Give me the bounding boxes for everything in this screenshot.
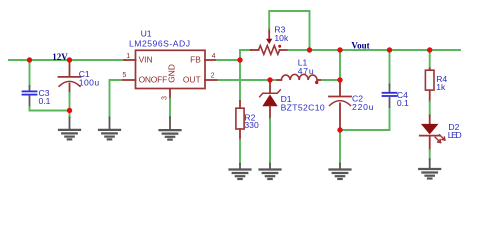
wire FB down to R2 <box>239 60 241 101</box>
svg-text:3: 3 <box>160 96 169 100</box>
svg-text:47u: 47u <box>298 66 314 76</box>
wire R3 wiper loop <box>269 11 309 50</box>
ground under D2 <box>419 159 440 178</box>
diode D1 zener BZT52C10 <box>260 82 325 119</box>
svg-text:0.1: 0.1 <box>397 98 409 108</box>
wire C2 node to ground <box>339 130 341 164</box>
svg-text:12V: 12V <box>52 52 68 62</box>
junction FB node <box>237 57 242 62</box>
wire C3 branch down <box>29 60 31 86</box>
svg-text:10k: 10k <box>274 33 289 43</box>
ground under C2 <box>330 164 351 180</box>
svg-text:5: 5 <box>122 70 126 79</box>
inductor L1 <box>277 57 322 84</box>
ground under U1 pin3 <box>160 117 181 139</box>
junction input/C1 <box>67 57 72 62</box>
svg-text:100u: 100u <box>79 77 100 87</box>
capacitor C2 <box>329 82 374 130</box>
wire C1 bottom to ground junction <box>69 93 71 118</box>
wire FB up to R3 <box>240 50 251 60</box>
svg-text:1: 1 <box>126 51 130 60</box>
svg-text:0.1: 0.1 <box>39 96 51 106</box>
wire rail down to C4 <box>389 50 391 85</box>
wire R2 to ground <box>239 140 241 164</box>
pin 4 lead FB <box>205 59 217 61</box>
potentiometer R3 <box>251 24 289 54</box>
wire input 12V horizontal <box>9 59 124 61</box>
capacitor C1 <box>59 61 100 93</box>
svg-text:GND: GND <box>166 64 176 83</box>
junction rail/R4 <box>427 47 432 52</box>
wire C2 node up to rail <box>339 50 341 80</box>
wire ground node C2/C4 <box>340 107 390 130</box>
svg-text:LM2596S-ADJ: LM2596S-ADJ <box>129 38 190 48</box>
capacitor C3 <box>23 86 51 107</box>
ground under D1 <box>260 164 281 179</box>
svg-text:VIN: VIN <box>139 54 153 64</box>
junction C1/C3 ground node <box>67 108 72 113</box>
wire L1 to C2 node <box>322 79 340 81</box>
capacitor C4 <box>383 85 410 108</box>
svg-text:Vout: Vout <box>351 41 369 51</box>
wire main output rail <box>289 49 461 51</box>
pin 5 lead ONOFF <box>121 79 136 81</box>
junction L1/C2/rail <box>337 77 342 82</box>
svg-text:330: 330 <box>244 120 259 130</box>
wire ONOFF to ground <box>110 80 122 118</box>
svg-text:U1: U1 <box>141 28 152 38</box>
svg-text:1k: 1k <box>436 82 446 92</box>
pin 2 lead OUT <box>205 79 219 81</box>
pin 1 lead VIN <box>124 59 135 61</box>
svg-text:BZT52C10: BZT52C10 <box>281 103 325 113</box>
svg-text:4: 4 <box>212 51 216 60</box>
junction rail/C4 <box>387 47 392 52</box>
junction C2/C4 ground node <box>337 127 342 132</box>
resistor R2 <box>236 101 259 140</box>
svg-text:OUT: OUT <box>183 75 201 85</box>
svg-text:2: 2 <box>211 70 215 79</box>
svg-text:FB: FB <box>190 54 201 64</box>
junction rail/C2 <box>337 47 342 52</box>
wire rail down to R4 <box>429 50 431 69</box>
ground under ONOFF <box>99 118 120 140</box>
wire D2 to ground <box>429 150 431 159</box>
svg-text:220u: 220u <box>352 102 374 112</box>
ground under R2 <box>230 164 251 179</box>
wire R4 to D2 <box>429 102 431 116</box>
pin 3 lead GND <box>169 90 171 99</box>
wire C3 to ground node <box>30 107 69 111</box>
wire OUT pin to D1 <box>219 79 278 81</box>
diode D2 LED <box>420 116 462 151</box>
op-amp U1 box LM2596S-ADJ <box>129 28 205 88</box>
wire FB to junction <box>217 59 240 61</box>
resistor R4 <box>425 69 447 102</box>
wire D1 to ground <box>269 119 271 164</box>
svg-text:LED: LED <box>448 130 462 140</box>
junction input/C3 <box>27 57 32 62</box>
junction OUT/D1 <box>267 77 272 82</box>
svg-text:ONOFF: ONOFF <box>139 75 168 85</box>
wire pin3 to ground <box>169 99 171 118</box>
ground under C1/C3 <box>59 118 80 140</box>
junction wiper/rail <box>307 47 312 52</box>
